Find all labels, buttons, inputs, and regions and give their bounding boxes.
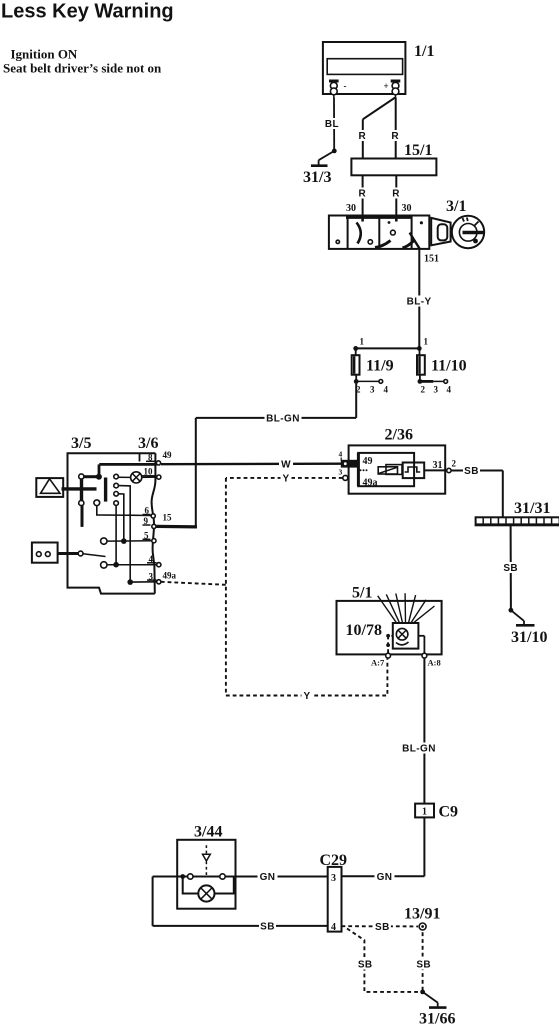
svg-text:1/1: 1/1 (414, 43, 434, 60)
svg-text:2/36: 2/36 (385, 427, 413, 444)
svg-text:R: R (392, 189, 400, 200)
svg-text:11/10: 11/10 (431, 358, 467, 375)
svg-text:13/91: 13/91 (404, 906, 440, 923)
svg-text:SB: SB (464, 466, 479, 477)
svg-text:2: 2 (452, 459, 457, 469)
svg-text:SB: SB (375, 922, 390, 933)
svg-text:31/3: 31/3 (303, 169, 331, 186)
svg-text:Ignition ON: Ignition ON (11, 47, 78, 62)
svg-text:30: 30 (346, 203, 356, 214)
svg-text:Less Key Warning: Less Key Warning (1, 1, 174, 23)
svg-text:3/1: 3/1 (446, 198, 466, 215)
svg-text:4: 4 (339, 450, 343, 459)
svg-text:31/10: 31/10 (511, 629, 547, 646)
svg-text:3/5: 3/5 (71, 435, 91, 452)
svg-text:49a: 49a (363, 477, 378, 488)
svg-text:15/1: 15/1 (404, 142, 432, 159)
svg-text:5/1: 5/1 (352, 585, 372, 602)
svg-text:SB: SB (260, 922, 275, 933)
svg-text:SB: SB (503, 563, 518, 574)
svg-text:W: W (281, 460, 291, 471)
svg-text:4: 4 (384, 385, 389, 395)
svg-text:1: 1 (424, 337, 429, 347)
svg-text:1: 1 (422, 807, 427, 818)
svg-text:49: 49 (163, 450, 173, 460)
svg-text:3/6: 3/6 (138, 435, 158, 452)
svg-text:C9: C9 (439, 804, 459, 821)
svg-text:3: 3 (434, 385, 439, 395)
svg-text:A:8: A:8 (428, 658, 441, 668)
svg-text:3: 3 (339, 468, 343, 477)
svg-text:1: 1 (360, 337, 365, 347)
svg-text:30: 30 (402, 203, 412, 214)
svg-text:15: 15 (163, 512, 173, 522)
svg-text:49: 49 (363, 456, 373, 467)
svg-text:Y: Y (282, 474, 289, 485)
svg-text:SB: SB (416, 960, 431, 971)
svg-text:151: 151 (424, 254, 439, 265)
svg-text:R: R (391, 131, 399, 142)
svg-text:31/31: 31/31 (514, 500, 550, 517)
svg-text:BL-Y: BL-Y (407, 297, 432, 308)
svg-text:10: 10 (144, 467, 154, 477)
svg-text:3: 3 (370, 385, 375, 395)
svg-text:2: 2 (421, 385, 426, 395)
svg-text:11/9: 11/9 (366, 358, 394, 375)
svg-text:A:7: A:7 (371, 658, 385, 668)
svg-text:R: R (358, 131, 366, 142)
svg-text:3: 3 (331, 873, 336, 884)
svg-text:R: R (358, 189, 366, 200)
svg-text:BL-GN: BL-GN (402, 744, 436, 755)
svg-text:GN: GN (377, 872, 393, 883)
svg-text:+: + (384, 81, 389, 91)
svg-text:Y: Y (303, 691, 310, 702)
svg-text:SB: SB (358, 960, 373, 971)
svg-text:31: 31 (433, 460, 443, 471)
svg-text:31/66: 31/66 (419, 1011, 455, 1024)
svg-text:4: 4 (447, 385, 452, 395)
svg-text:BL: BL (325, 119, 339, 130)
svg-text:4: 4 (331, 922, 336, 933)
svg-text:3/44: 3/44 (194, 824, 222, 841)
svg-text:10/78: 10/78 (346, 622, 382, 639)
svg-text:GN: GN (260, 872, 276, 883)
svg-text:49a: 49a (163, 571, 177, 581)
svg-text:BL-GN: BL-GN (266, 414, 300, 425)
svg-text:Seat belt driver’s side not on: Seat belt driver’s side not on (3, 61, 162, 76)
svg-text:-: - (344, 81, 347, 91)
